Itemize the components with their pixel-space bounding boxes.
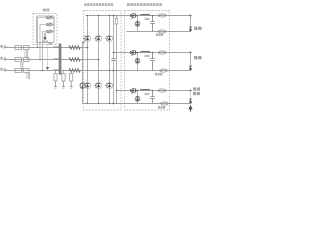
transformer T1 primary y=47.5 (54, 46, 59, 49)
wire earth dashed (47, 45, 49, 68)
wire cell2 input (114, 52, 192, 54)
transistor VT3 (130, 89, 132, 92)
label SPD box title (43, 9, 46, 12)
label 48V cell3 (158, 106, 160, 109)
arrester F1 (46, 16, 52, 19)
capacitor C3 (150, 91, 154, 104)
wire bridge leg x=109.5 (109, 16, 111, 104)
fuse FU bus (115, 19, 118, 25)
wire SPD tap 2 (40, 25, 54, 60)
diode VD1 (137, 16, 139, 32)
wire DC+ rail / cell1 main (86, 15, 192, 17)
battery earth arrow (190, 109, 192, 112)
node leg1 mid (87, 47, 89, 49)
node out y=52.5 (190, 52, 192, 54)
diode VD3 (137, 91, 139, 104)
node SPD tap 3 (42, 70, 44, 72)
label MOV (43, 41, 45, 43)
wire out drop y=15.5 (190, 16, 192, 32)
node SPD common (53, 18, 55, 32)
node SPD tap 2 (39, 59, 41, 61)
capacitor C1 (150, 16, 154, 32)
node N mark (82, 42, 85, 44)
wire phase C and mid return bus (6, 70, 191, 72)
inductor L2 (141, 51, 150, 52)
transistor V4 (83, 83, 90, 89)
transformer T1 primary y=59.5 (54, 58, 59, 61)
ground arrester x=71.2 (70, 71, 72, 74)
breaker box phase y=59.5 (24, 57, 30, 61)
wire SPD tap 3 (43, 32, 55, 71)
diode D-out y=70.5 (189, 66, 192, 69)
wire neutral leg (82, 44, 84, 104)
node SPD tap 1 (37, 47, 39, 49)
capacitor C bus (112, 59, 114, 61)
transformer T1 secondary zigzag y=70.5 (69, 69, 80, 73)
node out y=90.5 (190, 90, 192, 92)
wire out drop y=90.5 (190, 91, 192, 104)
diode D-out y=103.5 (189, 99, 192, 102)
breaker box phase y=47.5 (24, 45, 30, 49)
wire bridge leg x=87.5 (87, 16, 89, 104)
label cell2 small (145, 55, 150, 57)
wire DC bus minus (116, 16, 118, 104)
transistor VT2 (130, 51, 132, 54)
transistor V1 (83, 36, 90, 42)
wire cell3 input (117, 90, 192, 92)
SPD dashed box (33, 14, 57, 45)
transistor VT1 (130, 14, 132, 17)
inductor L3 (141, 89, 150, 90)
label 48V cell2 (155, 73, 157, 76)
terminal L3 (1, 68, 3, 71)
diode D-out y=31.5 (189, 27, 192, 30)
transformer T1 core (59, 44, 62, 75)
sense winding phase A (26, 50, 29, 59)
transistor V2 (94, 36, 101, 42)
fuse F12 (158, 30, 166, 33)
node bus joints (109, 15, 111, 17)
label DC/DC converter title (127, 3, 130, 6)
fuse F31 (158, 89, 166, 92)
DC/DC dashed box (125, 11, 170, 111)
wire bridge leg x=98.5 (98, 16, 100, 104)
label load2 (194, 56, 197, 59)
SPD inner box (37, 16, 55, 43)
label load1 (194, 27, 197, 30)
ground arrester x=55.5 (55, 71, 57, 74)
wire phase B (6, 59, 99, 61)
SPD earth arrow (44, 33, 46, 38)
wire out drop y=52.5 (190, 53, 192, 71)
fuse F32 (161, 102, 169, 105)
wire DC bus plus (113, 16, 115, 104)
arrester F2 (46, 23, 52, 26)
wire cell1 return (127, 31, 192, 33)
label load3 line1 (193, 87, 196, 90)
label PE (48, 42, 52, 44)
label load3 line2 (193, 92, 196, 95)
transistor Q7 neutral chopper (80, 83, 86, 89)
node out y=15.5 (190, 15, 192, 17)
label AC/DC rectifier title (84, 3, 86, 6)
terminal L1 (1, 45, 3, 48)
wire phase A (6, 47, 88, 49)
ground arrester x=63.5 (63, 71, 65, 74)
transistor V5 (94, 83, 101, 89)
fuse box phase y=47.5 (15, 45, 22, 49)
transformer T1 primary y=70.5 (54, 69, 59, 72)
fuse box phase y=70.5 (15, 68, 22, 72)
inductor L1 (141, 14, 150, 15)
fuse F11 (158, 14, 166, 17)
diode VD2 (137, 53, 139, 71)
capacitor C2 (150, 53, 154, 71)
label cell3 small (145, 93, 150, 95)
node leg3 mid (109, 70, 111, 72)
AC/DC bridge dashed box (84, 11, 122, 111)
label 48V cell1 (156, 33, 158, 36)
transistor V6 (105, 83, 112, 89)
arrester F3 (46, 30, 52, 33)
fuse box phase y=59.5 (15, 57, 22, 61)
transformer T1 secondary zigzag y=59.5 (69, 58, 80, 62)
transistor V3 (105, 36, 112, 42)
breaker box phase y=70.5 (24, 68, 30, 72)
sense winding phase B (21, 62, 24, 71)
label cell1 small (145, 18, 150, 20)
transformer T1 secondary zigzag y=47.5 (69, 46, 80, 50)
sense winding phase C (29, 72, 30, 79)
fuse F21 (158, 51, 166, 54)
wire DC- rail / cell3 return (83, 103, 192, 105)
terminal L2 (1, 57, 3, 60)
wire SPD tap 1 (38, 18, 55, 48)
node leg2 mid (98, 59, 100, 61)
fuse F22 (160, 69, 168, 72)
